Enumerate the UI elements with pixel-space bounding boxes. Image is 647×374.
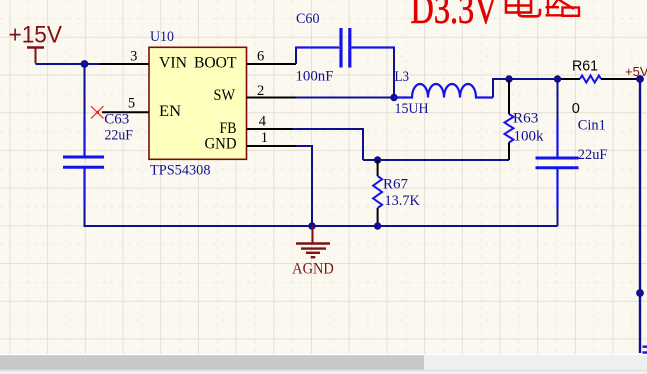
svg-text:C60: C60: [296, 11, 320, 27]
wire C60 down to SW node: [393, 49, 395, 98]
resistor R67: [373, 160, 420, 225]
resistor R61: [561, 58, 638, 117]
node R67/rail junction: [374, 222, 381, 229]
pin 6 BOOT: [247, 49, 297, 65]
svg-text:5: 5: [128, 96, 135, 112]
wire ground rail: [85, 225, 558, 227]
capacitor C60: [295, 28, 395, 68]
svg-text:BOOT: BOOT: [194, 54, 237, 71]
wire junction down to C63: [84, 64, 86, 127]
svg-text:4: 4: [259, 113, 267, 129]
hanzi 电: [506, 0, 540, 16]
svg-text:0: 0: [572, 101, 580, 117]
svg-text:FB: FB: [220, 120, 237, 137]
inductor L3: [394, 84, 493, 98]
svg-text:R63: R63: [513, 111, 538, 127]
wire +5V down right edge: [639, 79, 641, 353]
no-ERC marker on EN: [91, 106, 104, 118]
svg-text:22uF: 22uF: [105, 128, 134, 144]
wire SW to L3: [296, 97, 394, 99]
svg-text:6: 6: [257, 49, 264, 65]
svg-text:SW: SW: [214, 87, 236, 104]
svg-text:3: 3: [130, 48, 137, 64]
svg-text:Cin1: Cin1: [578, 118, 606, 134]
svg-text:+15V: +15V: [9, 22, 63, 49]
title D3.3V电路 (top-cropped): [411, 0, 498, 33]
node Cin1 junction: [554, 75, 561, 82]
hanzi 路: [546, 0, 580, 16]
capacitor Cin1: [536, 79, 608, 226]
svg-text:L3: L3: [395, 69, 410, 85]
svg-text:+5V: +5V: [625, 64, 647, 79]
node right wire junction: [636, 289, 644, 297]
wire GND pin down to rail: [296, 146, 312, 226]
svg-text:100k: 100k: [514, 128, 545, 144]
node R63 junction: [505, 75, 512, 82]
node +15V junction: [81, 60, 89, 68]
svg-text:1: 1: [261, 130, 268, 146]
power port +15V: [9, 22, 63, 64]
svg-text:2: 2: [257, 83, 264, 99]
svg-text:15UH: 15UH: [395, 101, 429, 117]
svg-text:D3.3V: D3.3V: [411, 0, 498, 33]
svg-text:GND: GND: [205, 136, 237, 153]
scrollbar: [0, 354, 647, 355]
wire C63 to ground rail: [85, 206, 121, 226]
svg-text:C63: C63: [104, 111, 129, 127]
svg-text:VIN: VIN: [159, 54, 187, 71]
node AGND junction: [308, 222, 315, 229]
svg-text:R61: R61: [572, 58, 598, 74]
node SW/L3/C60 junction: [390, 94, 397, 101]
pin 4 FB: [247, 113, 293, 129]
node FB/R67 junction: [374, 156, 381, 163]
svg-text:13.7K: 13.7K: [385, 193, 420, 209]
capacitor C63: [63, 118, 104, 206]
svg-text:EN: EN: [159, 103, 181, 120]
svg-text:R67: R67: [383, 177, 408, 193]
pin 1 GND: [247, 130, 297, 146]
pin 3 VIN: [100, 48, 149, 64]
pin 5 EN: [102, 96, 149, 113]
IC U10 TPS54308 regulator: [149, 29, 247, 179]
svg-text:TPS54308: TPS54308: [150, 163, 211, 179]
wire L3 up to +5V rail: [493, 79, 561, 98]
ground AGND: [296, 226, 330, 257]
resistor R63: [505, 80, 545, 160]
svg-text:U10: U10: [150, 29, 174, 45]
pin 2 SW: [247, 83, 297, 99]
wire FB net: [293, 129, 364, 160]
wire BOOT up to C60: [295, 49, 297, 65]
partial 22uF text bottom right: [643, 347, 647, 353]
svg-text:100nF: 100nF: [296, 69, 334, 85]
wire +15V to VIN: [36, 63, 101, 65]
svg-text:22uF: 22uF: [578, 147, 608, 163]
power port +5V: [625, 64, 647, 83]
svg-text:AGND: AGND: [292, 261, 334, 278]
